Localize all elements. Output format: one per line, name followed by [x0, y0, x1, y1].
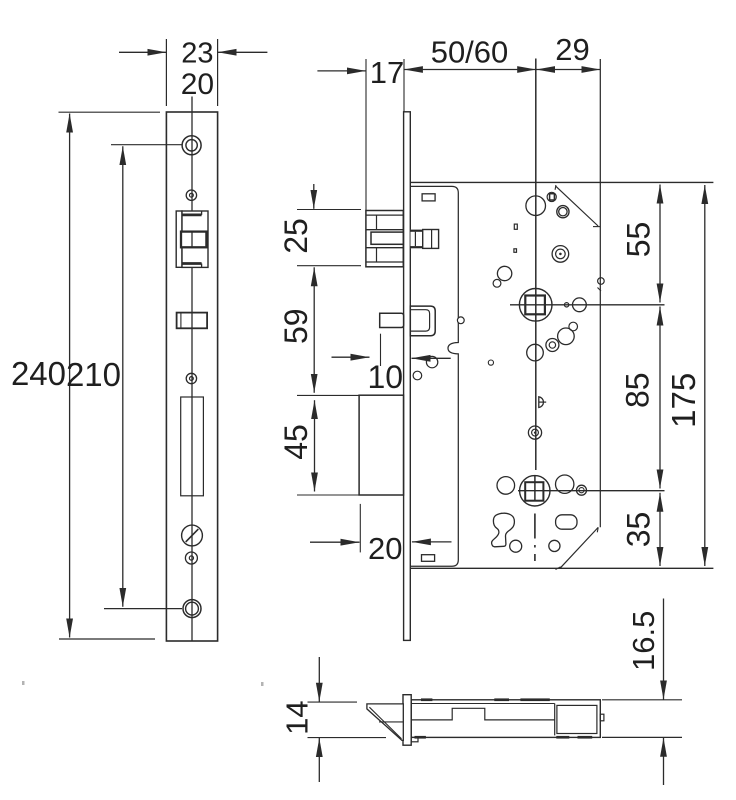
bottom screw hole — [183, 600, 201, 618]
housing pin circle — [457, 317, 464, 324]
top chamfer — [555, 185, 600, 227]
case top edge — [410, 181, 713, 183]
circle left of lower spindle — [497, 477, 515, 495]
dimension 10 — [332, 334, 451, 395]
tiny circle mid left — [488, 360, 493, 365]
dimension 175 — [665, 185, 705, 566]
dimension 23 — [119, 37, 267, 106]
dimension 55 — [621, 185, 661, 303]
dimension 14 — [280, 657, 387, 782]
tiny circle on spindle line — [564, 303, 568, 307]
plan bottom weld marks — [415, 736, 593, 739]
speck mid — [261, 682, 264, 686]
small circle under arrow — [426, 356, 437, 367]
plan plate foot — [411, 737, 418, 741]
svg-text:35: 35 — [621, 512, 657, 548]
dimension 240 — [11, 112, 160, 639]
double ring mid — [546, 339, 559, 352]
circle top on centerline — [526, 196, 546, 216]
circle right of spindle — [573, 298, 587, 312]
svg-text:50/60: 50/60 — [431, 35, 509, 70]
faceplate outline — [166, 112, 217, 641]
dimension 85 — [620, 307, 661, 489]
svg-text:25: 25 — [278, 218, 314, 254]
bottom chamfer — [556, 527, 599, 569]
top fixing slot — [422, 194, 435, 201]
plan right tab — [600, 714, 604, 721]
inner housing — [410, 186, 458, 566]
small circle mid right — [569, 322, 578, 331]
top screw hole — [182, 136, 201, 155]
spindle centerline vertical — [535, 59, 537, 471]
circle pair left — [497, 266, 511, 280]
D flag stop — [539, 397, 546, 408]
plan divider — [554, 704, 556, 736]
svg-text:55: 55 — [621, 222, 657, 258]
dimension 59 — [278, 267, 314, 393]
bottom fixing slot — [422, 555, 435, 562]
circle mid right — [558, 328, 575, 345]
svg-text:17: 17 — [370, 55, 404, 90]
tiny rect hole A — [514, 224, 517, 229]
double ring lower right — [577, 485, 587, 495]
plan top weld marks — [421, 698, 550, 701]
plan latch wedge — [367, 704, 403, 740]
dimension 20 lower — [310, 504, 452, 566]
auxiliary bolt hole — [177, 313, 208, 329]
plan inner top line — [411, 703, 555, 705]
rounded cutout right — [556, 515, 577, 529]
lower spindle follower — [520, 476, 550, 506]
double circle top — [557, 206, 569, 218]
svg-text:20: 20 — [181, 68, 214, 101]
centerline dashed below — [534, 514, 536, 562]
dimension 17 — [317, 55, 404, 211]
svg-text:23: 23 — [181, 37, 213, 69]
square hole w circle top — [547, 192, 556, 201]
dimension 25 — [278, 184, 361, 266]
extension line right edge — [599, 59, 601, 527]
plan case body — [411, 700, 600, 738]
tiny rect hole B — [514, 249, 517, 253]
latch bolt front view — [176, 211, 208, 267]
small circle lower left — [510, 540, 522, 552]
deadbolt body — [410, 306, 435, 336]
deadbolt head retracted — [380, 313, 404, 327]
lower spindle centerline horizontal — [518, 490, 665, 492]
svg-text:10: 10 — [368, 359, 404, 395]
speck left — [22, 681, 25, 685]
svg-text:240: 240 — [11, 355, 66, 392]
svg-text:210: 210 — [66, 356, 121, 393]
circle mid on centerline — [527, 344, 544, 361]
keyhole cutout — [492, 513, 515, 547]
dimension 16.5 — [602, 599, 682, 786]
svg-text:175: 175 — [665, 373, 702, 428]
svg-text:85: 85 — [620, 372, 656, 408]
latch bolt side view — [366, 211, 403, 267]
small circle lower right — [549, 540, 560, 551]
small circle near strip — [413, 371, 422, 380]
small pin hole lower — [185, 552, 197, 564]
plan faceplate — [403, 695, 411, 746]
small pin hole middle — [186, 373, 196, 383]
dimension 210 — [66, 145, 182, 609]
svg-text:20: 20 — [368, 531, 402, 566]
dimension 50/60 — [404, 35, 536, 70]
dimension 45 — [278, 395, 359, 495]
upper spindle centerline horizontal — [510, 304, 665, 306]
deadbolt slot — [181, 397, 204, 496]
svg-text:59: 59 — [278, 308, 314, 344]
dimension 35 — [621, 493, 661, 566]
latch tail — [411, 230, 439, 249]
screw boss upper — [552, 246, 569, 263]
plan right block — [557, 705, 597, 733]
screw boss mid — [528, 426, 541, 439]
svg-text:16.5: 16.5 — [626, 611, 661, 671]
dimension 29 — [536, 32, 600, 70]
slotted screw — [182, 525, 203, 546]
small pin hole upper — [186, 190, 196, 200]
centerline — [191, 97, 193, 642]
svg-text:14: 14 — [280, 700, 315, 734]
right edge tab — [598, 278, 605, 291]
faceplate edge strip — [404, 112, 411, 641]
plan stepped line — [411, 708, 555, 720]
svg-text:45: 45 — [278, 424, 314, 460]
deadbolt extended — [359, 395, 403, 495]
svg-text:29: 29 — [555, 32, 589, 67]
circle right of lower spindle — [556, 475, 574, 493]
case bottom edge — [410, 567, 713, 569]
upper spindle follower — [519, 288, 552, 321]
